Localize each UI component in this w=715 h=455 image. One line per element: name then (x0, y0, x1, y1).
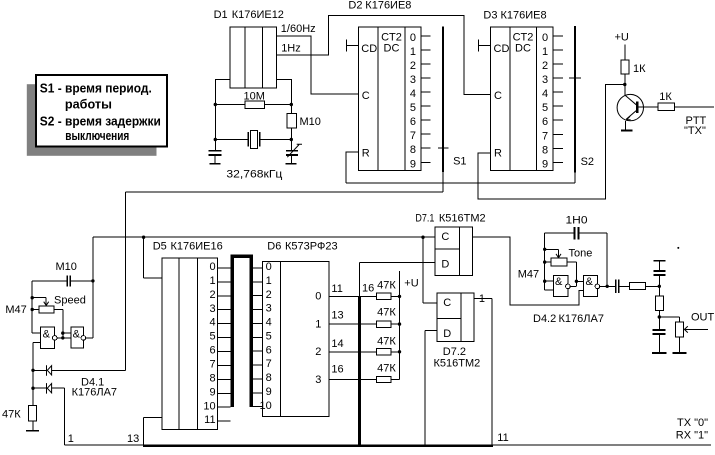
svg-text:1К: 1К (633, 63, 646, 75)
D5 output 11 stub (218, 420, 231, 422)
pin labels 11 13 14 16 (331, 283, 343, 376)
wire 1Hz output D1 to D3 C input (277, 15, 491, 94)
D2 CD input stub (346, 39, 358, 51)
svg-text:7: 7 (410, 130, 416, 142)
svg-text:10: 10 (203, 400, 215, 412)
wire D7.1 D input from bus (360, 262, 436, 296)
svg-text:Tone: Tone (569, 248, 593, 260)
svg-text:R: R (362, 148, 370, 160)
svg-text:+U: +U (615, 32, 629, 44)
gate D4.2b (&) (584, 275, 600, 296)
svg-text:3: 3 (209, 303, 215, 315)
svg-text:4: 4 (410, 88, 416, 100)
ground (47К) (26, 430, 39, 432)
resistor 47К row1 (377, 321, 391, 327)
labels 47К (377, 280, 396, 375)
gate D4.2a input stub (576, 280, 583, 282)
resistor 47К row2 (377, 349, 391, 355)
svg-text:работы: работы (65, 96, 112, 111)
crystal ZQ1 32768Hz (215, 131, 291, 149)
svg-text:К176ИЕ12: К176ИЕ12 (232, 9, 284, 21)
resistor 1К base (658, 103, 674, 111)
D2 output ticks (421, 36, 431, 163)
switch S2 bar (574, 26, 576, 173)
svg-text:47К: 47К (2, 409, 21, 421)
potentiometer Speed wiper arrow (32, 298, 49, 306)
wire to divider node (645, 285, 659, 287)
svg-text:6: 6 (266, 344, 272, 356)
D5 digits 0-11 (203, 261, 215, 426)
wire 1/60Hz output D1 to D2 C input (277, 36, 359, 94)
label D4.1 К176ЛА7 (72, 377, 117, 399)
svg-text:5: 5 (209, 331, 215, 343)
node dot М10 right (91, 279, 94, 282)
node dots tone left vertical (543, 248, 546, 251)
D6 output row 1 (pin 13) (329, 323, 400, 325)
svg-text:К516ТМ2: К516ТМ2 (439, 213, 486, 225)
resistor 1К collector load (621, 60, 629, 74)
capacitor М10 (oscillator) (32, 261, 93, 286)
transistor Q1 circle (617, 94, 643, 120)
node dot divider top (658, 285, 661, 288)
OUT wiper arrow (684, 326, 708, 332)
svg-text:CD: CD (361, 43, 377, 55)
svg-text:0: 0 (315, 291, 321, 303)
diode VD1 (33, 365, 125, 376)
wire D1 right pin down (277, 80, 292, 150)
svg-text:10: 10 (260, 400, 272, 412)
S1 wiper contact crossing (438, 147, 449, 149)
svg-text:1Н0: 1Н0 (566, 214, 588, 226)
svg-text:К573РФ23: К573РФ23 (285, 241, 338, 253)
gate D4.2a (&) (553, 275, 570, 296)
svg-text:16: 16 (362, 282, 374, 294)
gate D4.1b (&) (71, 327, 86, 348)
IC D1 К176ИЕ12 body (230, 27, 277, 88)
wire gate D4.2a out (570, 285, 576, 287)
svg-text:6: 6 (209, 345, 215, 357)
D6 input digits 0-10 (260, 261, 272, 412)
svg-text:D: D (443, 328, 451, 340)
svg-text:М10: М10 (56, 261, 77, 273)
IC D7.2 label (434, 346, 481, 369)
ground (OUT pot) (672, 352, 686, 354)
capacitor lower (to ground) (653, 329, 666, 352)
svg-text:OUT: OUT (691, 311, 715, 323)
svg-text:1: 1 (209, 275, 215, 287)
gate D4.1a inputs (33, 343, 41, 406)
node dots left vertical (31, 296, 34, 299)
ground (trimmer) (286, 163, 297, 165)
svg-text:1: 1 (315, 318, 321, 330)
svg-text:5: 5 (542, 102, 548, 114)
svg-text:13: 13 (127, 433, 139, 445)
IC D2 К176ИЕ8 counter body (358, 27, 421, 170)
svg-text:1/60Hz: 1/60Hz (281, 23, 316, 35)
wire D7.2 output pin 1 to bottom rail (474, 298, 492, 445)
wire left node vertical (М10 to gate input) (32, 281, 40, 333)
svg-text:+U: +U (404, 277, 418, 289)
node dot 1Н0 return (606, 285, 609, 288)
svg-text:14: 14 (331, 338, 343, 350)
svg-text:11: 11 (204, 414, 215, 426)
wire line B down to D5 C input (144, 237, 163, 278)
svg-text:11: 11 (331, 283, 342, 295)
wire D5 pin 13 to bottom rail (144, 418, 162, 445)
svg-text:1: 1 (479, 293, 485, 305)
svg-text:DC: DC (384, 43, 400, 55)
capacitor left of crystal (209, 150, 222, 163)
svg-text:9: 9 (266, 386, 272, 398)
D5 output ticks to bus (218, 268, 231, 407)
wire clock line B (oscillator out to D7.1 C) (93, 236, 435, 238)
svg-text:DC: DC (515, 43, 531, 55)
wire base to resistor (638, 106, 658, 108)
wire S2 bar bottom to L1 (574, 172, 576, 183)
wire tone osc left node (545, 233, 553, 290)
node dot collector (623, 83, 626, 86)
diode VD2 (33, 383, 65, 394)
D3 output ticks (553, 36, 563, 162)
svg-text:S2 - время задержки: S2 - время задержки (40, 113, 161, 128)
svg-text:М10: М10 (300, 116, 321, 128)
svg-text:8: 8 (542, 144, 548, 156)
svg-text:2: 2 (209, 289, 215, 301)
wire PTT output (674, 106, 714, 108)
svg-text:D1: D1 (214, 9, 228, 21)
svg-text:4: 4 (209, 317, 215, 329)
svg-text:10М: 10М (244, 91, 265, 103)
svg-text:D4.2: D4.2 (533, 313, 556, 325)
D6 input ticks from bus (253, 268, 263, 407)
svg-text:&: & (555, 276, 563, 288)
potentiometer OUT body (675, 322, 683, 337)
wire +U pull-up line (399, 271, 401, 379)
svg-text:М47: М47 (5, 304, 26, 316)
svg-text:S1: S1 (453, 156, 466, 168)
trimmer capacitor (286, 144, 302, 163)
svg-text:D7.2: D7.2 (443, 346, 466, 358)
switch S1 bar (442, 26, 444, 172)
bottom rail thin left (65, 444, 143, 446)
svg-text:D3: D3 (483, 10, 497, 22)
info box text (40, 81, 161, 144)
svg-text:9: 9 (410, 158, 416, 170)
svg-text:C: C (362, 90, 370, 102)
svg-text:D7.1: D7.1 (415, 213, 434, 225)
D6 output row 2 (pin 14) (329, 351, 400, 353)
svg-text:RX "1": RX "1" (676, 429, 708, 441)
svg-text:4: 4 (542, 88, 548, 100)
svg-text:7: 7 (266, 358, 272, 370)
node dot D7.1 C input (421, 236, 424, 239)
transistor Q1 collector diagonal (625, 95, 637, 105)
svg-text:11: 11 (497, 432, 508, 444)
resistor output series (630, 282, 646, 289)
S2 wiper contact crossing (569, 77, 581, 79)
svg-text:5: 5 (410, 102, 416, 114)
wire D2 R to L1 (346, 152, 358, 183)
svg-text:К176ИЕ8: К176ИЕ8 (501, 10, 547, 22)
wire +U to resistor (624, 44, 626, 60)
svg-text:32,768кГц: 32,768кГц (226, 169, 283, 181)
svg-text:47К: 47К (377, 362, 396, 374)
capacitor output coupling (615, 280, 629, 293)
IC D7.1 К516ТМ2 body (435, 227, 473, 275)
svg-text:47К: 47К (377, 307, 396, 319)
svg-text:К176ИЕ16: К176ИЕ16 (171, 241, 223, 253)
svg-text:3: 3 (266, 303, 272, 315)
svg-text:К516ТМ2: К516ТМ2 (434, 357, 481, 369)
wire L1: D2 R to S2 wiper (346, 182, 575, 184)
potentiometer Tone body (545, 258, 577, 286)
svg-text:TX "0": TX "0" (677, 417, 708, 429)
potentiometer Speed body (32, 306, 63, 338)
thick bus TX/RX vertical (358, 296, 361, 445)
node dots diode column (31, 369, 34, 372)
ground (lower cap) (652, 352, 667, 354)
svg-text:6: 6 (410, 116, 416, 128)
svg-text:D6: D6 (267, 241, 281, 253)
wire L2: S1 wiper to diode VD1 (125, 191, 443, 193)
svg-text:2: 2 (410, 60, 416, 72)
svg-text:2: 2 (542, 60, 548, 72)
D6 output digits 0-3 (315, 291, 321, 386)
svg-text:3: 3 (542, 74, 548, 86)
svg-text:5: 5 (266, 330, 272, 342)
D3 digits 0-9 (542, 32, 548, 171)
svg-text:R: R (494, 148, 502, 160)
svg-text:D2: D2 (348, 0, 362, 11)
node dots D1 oscillator (214, 103, 217, 106)
svg-text:&: & (586, 276, 594, 288)
gate D4.1a (&) (41, 327, 57, 349)
svg-text:1Hz: 1Hz (281, 43, 301, 55)
svg-text:S1 - время период.: S1 - время период. (40, 81, 152, 96)
ground (left cap) (210, 163, 221, 165)
svg-text:&: & (73, 328, 81, 340)
wire D7.2 D input from bottom rail (425, 330, 437, 445)
wire to OUT pot (659, 317, 679, 322)
resistor 10М (215, 91, 291, 109)
svg-text:6: 6 (542, 116, 548, 128)
bus D5-D6 (thick П shape) (230, 254, 253, 407)
gate D4.1b upper input stub (63, 332, 71, 334)
D6 output row 0 (pin 11) (329, 295, 400, 297)
bottom rail thick (143, 444, 493, 447)
resistor divider vertical (655, 286, 663, 329)
svg-text:2: 2 (266, 289, 272, 301)
svg-text:CD: CD (494, 43, 510, 55)
wire D7.1 output to D4.2 gate input (473, 237, 584, 305)
IC D6 К573РФ23 body (263, 262, 329, 417)
svg-text:К176ИЕ8: К176ИЕ8 (365, 0, 411, 11)
svg-text:3: 3 (410, 74, 416, 86)
wire gate2 output up to clock line B (86, 237, 93, 338)
svg-text:М47: М47 (518, 269, 539, 281)
wire D7.1 C node down to D7.2 C input (423, 237, 437, 303)
node dot divider bottom (658, 315, 661, 318)
svg-text:9: 9 (209, 386, 215, 398)
svg-text:"TX": "TX" (684, 125, 706, 137)
resistor 47К (oscillator) (2, 405, 37, 430)
resistor 47К row3 (377, 376, 391, 382)
svg-text:8: 8 (209, 373, 215, 385)
svg-text:&: & (43, 329, 51, 341)
stray dot artifact (677, 247, 679, 249)
D3 CD input stub (479, 39, 491, 51)
svg-text:9: 9 (542, 158, 548, 170)
node dots +U line (398, 295, 401, 298)
svg-text:0: 0 (410, 32, 416, 44)
svg-text:8: 8 (266, 372, 272, 384)
transistor Q1 emitter with arrow (626, 111, 637, 130)
ground (emitter) (621, 130, 632, 132)
D2 digits 0-9 (410, 32, 416, 171)
svg-text:16: 16 (331, 364, 343, 376)
bottom rail thin right (493, 444, 711, 446)
wire pot to ground (679, 337, 681, 352)
svg-text:1: 1 (68, 433, 74, 445)
svg-text:C: C (441, 231, 449, 243)
svg-text:2: 2 (315, 346, 321, 358)
transistor Q1 base bar (636, 101, 638, 113)
wire resistor to transistor collector (624, 74, 626, 95)
node dot line B to D5 C (142, 236, 145, 239)
svg-text:выключения: выключения (65, 128, 129, 143)
svg-text:C: C (494, 90, 502, 102)
svg-text:4: 4 (266, 317, 272, 329)
svg-text:7: 7 (209, 359, 215, 371)
svg-text:C: C (443, 297, 451, 309)
info box shadow (27, 84, 157, 156)
IC D3 К176ИЕ8 counter body (491, 27, 554, 170)
capacitor to +U rail (top) (653, 260, 665, 287)
svg-text:К176ЛА7: К176ЛА7 (559, 313, 604, 325)
svg-text:0: 0 (542, 32, 548, 44)
wire VD2 to bottom rail pin 1 (64, 388, 66, 445)
IC D5 К176ИЕ16 body (162, 258, 217, 429)
wire D1 left pin down (215, 80, 230, 150)
svg-text:0: 0 (266, 261, 272, 273)
resistor 47К row0 (377, 293, 391, 299)
wire diode VD1 riser to L2 (124, 192, 126, 370)
wire D3 R to transistor collector node (478, 85, 625, 200)
svg-text:0: 0 (209, 261, 215, 273)
label PTT "TX" (684, 115, 707, 137)
svg-text:8: 8 (410, 144, 416, 156)
D6 output row 3 (pin 16) (329, 379, 400, 381)
svg-text:1: 1 (542, 46, 548, 58)
svg-text:D5: D5 (153, 241, 167, 253)
potentiometer Tone wiper arrow (545, 249, 561, 257)
capacitor 1Н0 feedback (545, 227, 608, 286)
svg-text:К176ЛА7: К176ЛА7 (72, 387, 117, 399)
svg-text:1: 1 (410, 46, 416, 58)
wire gate1 out to gate2 in (57, 337, 71, 339)
svg-text:1: 1 (266, 275, 272, 287)
svg-text:D: D (441, 259, 449, 271)
wire gate D4.2b output (600, 285, 616, 287)
svg-text:Speed: Speed (54, 295, 86, 307)
info box (36, 75, 167, 147)
svg-text:S2: S2 (581, 156, 594, 168)
svg-text:47К: 47К (377, 280, 396, 292)
node dot Tone feedback (575, 280, 578, 283)
IC D7.2 К516ТМ2 body (437, 293, 474, 342)
node dots between gates (61, 331, 64, 334)
svg-text:13: 13 (331, 309, 343, 321)
wire S1 bar bottom to L2 (442, 172, 444, 192)
resistor М10 (vertical) (287, 114, 321, 129)
svg-text:7: 7 (542, 130, 548, 142)
svg-text:1К: 1К (659, 91, 672, 103)
svg-text:3: 3 (315, 374, 321, 386)
svg-text:47К: 47К (377, 335, 396, 347)
